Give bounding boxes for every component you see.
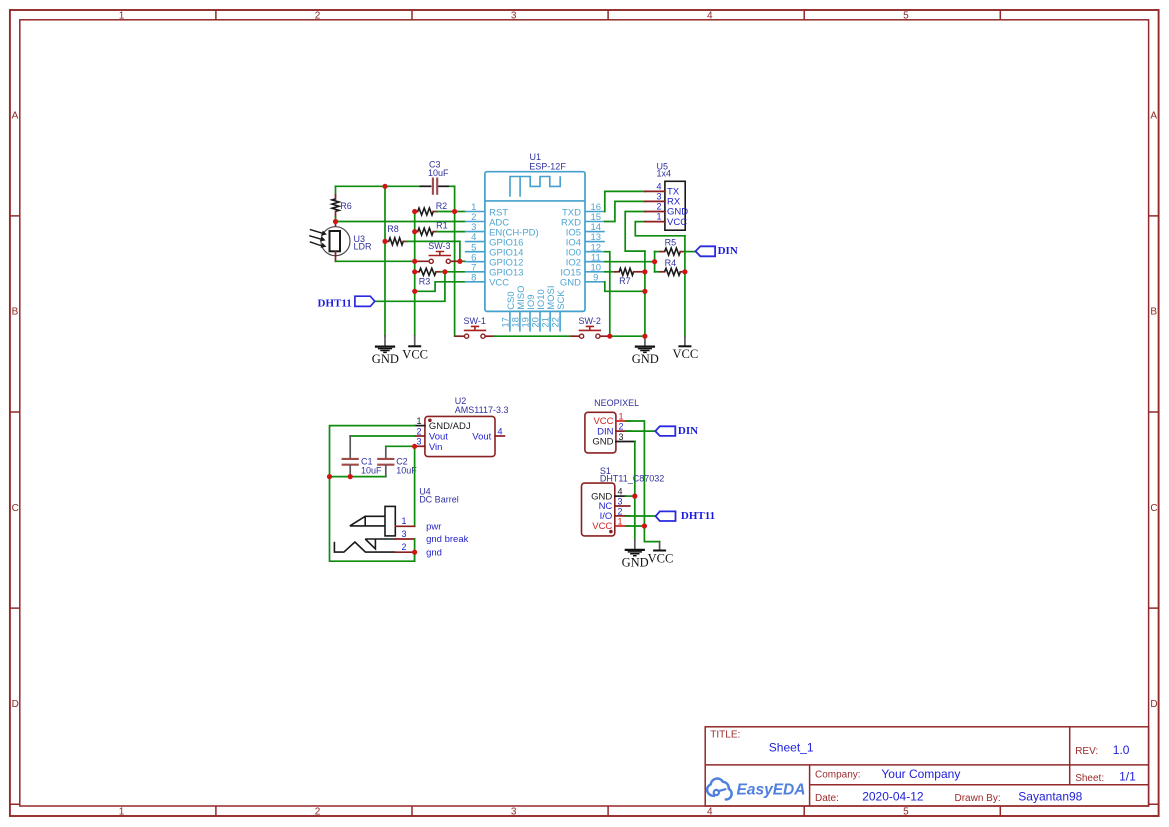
svg-text:1.0: 1.0 bbox=[1113, 743, 1130, 757]
left ruler row letters bbox=[12, 111, 19, 710]
node junction R3 left bbox=[412, 269, 417, 274]
pushbutton SW-2 bbox=[571, 326, 610, 338]
svg-text:3: 3 bbox=[402, 529, 407, 539]
svg-text:4: 4 bbox=[498, 426, 503, 436]
node junction GND jog bbox=[642, 289, 647, 294]
U2 pin 1 GND/ADJ bbox=[415, 416, 471, 432]
svg-text:gnd break: gnd break bbox=[426, 534, 469, 545]
capacitor C3 bbox=[421, 178, 449, 195]
svg-text:2: 2 bbox=[315, 806, 321, 817]
svg-text:Vout: Vout bbox=[472, 432, 491, 443]
left ruler ticks bbox=[10, 216, 20, 804]
S1 pin 2 I/O bbox=[600, 506, 630, 522]
wire VCC rail left x=414.7 bbox=[414, 212, 416, 336]
photoresistor U3 LDR bbox=[309, 222, 350, 262]
U1 pin 7 GPIO13 bbox=[465, 262, 524, 278]
wire U4 gnd-break to gnd bbox=[414, 539, 416, 561]
svg-text:TITLE:: TITLE: bbox=[710, 730, 740, 741]
wire SW-1 to SW-2 bbox=[494, 335, 571, 337]
resistor R3 bbox=[415, 268, 465, 275]
wire GND row C1 C2 bbox=[330, 476, 386, 478]
S1 pin 1 VCC bbox=[592, 516, 629, 532]
svg-text:R4: R4 bbox=[665, 258, 677, 268]
svg-text:GND: GND bbox=[592, 437, 613, 448]
wire NEOPIXEL VCC rail bbox=[626, 421, 660, 542]
svg-text:DIN: DIN bbox=[597, 426, 614, 437]
bottom ruler ticks bbox=[216, 806, 1000, 816]
svg-text:2: 2 bbox=[618, 506, 623, 516]
wire U5 VCC jog bbox=[635, 222, 685, 236]
svg-text:3: 3 bbox=[511, 806, 517, 817]
header U5 1x4 bbox=[645, 181, 685, 230]
wire rail B x=454.6 bbox=[454, 186, 456, 336]
wire S1 I/O to DHT11 port bbox=[626, 515, 656, 517]
wire GND pin9 jog bbox=[605, 282, 645, 292]
S1 pin 3 NC bbox=[599, 496, 630, 512]
svg-text:4: 4 bbox=[656, 181, 661, 191]
resistor R2 bbox=[415, 208, 455, 215]
svg-text:D: D bbox=[1150, 699, 1157, 710]
svg-text:SW-2: SW-2 bbox=[579, 316, 601, 326]
svg-text:GND/ADJ: GND/ADJ bbox=[429, 421, 471, 432]
svg-text:2: 2 bbox=[619, 422, 624, 432]
wire GND rail right x=644.9 bbox=[644, 251, 646, 336]
U1 pin 9 GND bbox=[560, 272, 605, 288]
right ruler row letters bbox=[1150, 111, 1157, 710]
U1 pin 5 GPIO14 bbox=[465, 242, 524, 258]
svg-text:C: C bbox=[1150, 503, 1157, 514]
wire VCC jog to pin8 bbox=[415, 282, 465, 292]
resistor R1 bbox=[415, 228, 465, 235]
svg-text:GND: GND bbox=[372, 352, 399, 366]
wire ADC y=221.5 bbox=[336, 221, 465, 223]
node junction R7 right GND rail bbox=[642, 269, 647, 274]
power symbol VCC left bbox=[402, 336, 428, 362]
wire S1 VCC to rail bbox=[626, 525, 645, 527]
svg-text:R2: R2 bbox=[436, 201, 448, 211]
svg-text:10uF: 10uF bbox=[428, 168, 449, 178]
resistor R8 bbox=[385, 238, 460, 261]
svg-text:DHT11: DHT11 bbox=[681, 510, 715, 522]
svg-text:LDR: LDR bbox=[354, 241, 373, 251]
right ruler ticks bbox=[1149, 216, 1159, 804]
capacitor C1 bbox=[342, 436, 359, 477]
svg-text:2: 2 bbox=[656, 202, 661, 212]
svg-text:4: 4 bbox=[707, 11, 713, 22]
svg-text:U1: U1 bbox=[530, 152, 542, 162]
svg-text:3: 3 bbox=[416, 437, 421, 447]
svg-text:R6: R6 bbox=[340, 201, 352, 211]
wire Vin down to U4 pwr bbox=[414, 446, 416, 526]
IC U1 ESP-12F body bbox=[485, 172, 585, 312]
bottom ruler column numbers bbox=[119, 806, 909, 817]
node junction top rail bbox=[382, 184, 387, 189]
wire IO2 to junction bbox=[605, 261, 655, 263]
svg-text:SW-1: SW-1 bbox=[464, 316, 486, 326]
svg-text:1: 1 bbox=[119, 11, 125, 22]
svg-text:Date:: Date: bbox=[815, 793, 839, 804]
svg-text:Sheet:: Sheet: bbox=[1075, 773, 1104, 784]
svg-text:Company:: Company: bbox=[815, 770, 861, 781]
node junction VCC jog bbox=[412, 289, 417, 294]
U1 pin 13 IO4 bbox=[566, 232, 605, 248]
node junction GND loop C1 bbox=[327, 474, 332, 479]
svg-text:ESP-12F: ESP-12F bbox=[529, 161, 566, 171]
svg-text:1/1: 1/1 bbox=[1119, 770, 1136, 784]
U1 pin 8 VCC bbox=[465, 272, 509, 288]
svg-text:Sayantan98: Sayantan98 bbox=[1018, 790, 1082, 804]
U2 pin1 marker dot bbox=[428, 419, 432, 423]
node junction C1 bottom bbox=[348, 474, 353, 479]
svg-text:DIN: DIN bbox=[718, 245, 738, 257]
svg-text:GND: GND bbox=[632, 352, 659, 366]
svg-text:AMS1117-3.3: AMS1117-3.3 bbox=[455, 405, 509, 415]
svg-text:1: 1 bbox=[618, 516, 623, 526]
node junction SW-2 right bbox=[607, 334, 612, 339]
svg-text:9: 9 bbox=[593, 272, 598, 283]
EasyEDA logo cloud bbox=[707, 779, 732, 800]
wire DHT11 net to GPIO13 bbox=[375, 272, 445, 302]
wire VCC rail right x=684.9 bbox=[684, 236, 686, 337]
wire Vout to C1 bbox=[350, 435, 415, 437]
U2 pin 3 Vin bbox=[415, 437, 443, 453]
svg-text:R7: R7 bbox=[619, 276, 631, 286]
sensor S1 DHT11 body bbox=[582, 483, 615, 536]
svg-text:2: 2 bbox=[402, 542, 407, 552]
resistor R7 bbox=[605, 268, 643, 275]
node junction GND rail bottom bbox=[642, 334, 647, 339]
resistor R6 bbox=[332, 186, 339, 221]
svg-text:B: B bbox=[1150, 307, 1157, 318]
node junction R2 left bbox=[412, 209, 417, 214]
svg-text:GND: GND bbox=[622, 556, 649, 570]
node junction rail B RST bbox=[452, 209, 457, 214]
svg-text:VCC: VCC bbox=[673, 347, 699, 361]
svg-text:B: B bbox=[12, 307, 19, 318]
svg-text:1: 1 bbox=[416, 416, 421, 426]
NEOPIXEL pin 3 GND bbox=[592, 432, 635, 448]
svg-text:VCC: VCC bbox=[648, 552, 674, 566]
U1 pin 15 RXD bbox=[561, 212, 605, 228]
svg-text:NEOPIXEL: NEOPIXEL bbox=[594, 398, 639, 408]
svg-text:8: 8 bbox=[471, 272, 476, 283]
svg-text:EasyEDA: EasyEDA bbox=[737, 782, 806, 799]
U1 pin 12 IO0 bbox=[566, 242, 605, 258]
wire GND rail x=634.8 bbox=[634, 442, 636, 540]
svg-text:R8: R8 bbox=[387, 224, 399, 234]
NEOPIXEL pin 1 VCC bbox=[593, 411, 630, 427]
svg-text:VCC: VCC bbox=[489, 278, 509, 289]
U1 pin 1 RST bbox=[465, 202, 508, 218]
net port DHT11 bottom bbox=[656, 510, 716, 522]
svg-text:R3: R3 bbox=[419, 276, 431, 286]
net port DHT11 left bbox=[318, 296, 375, 309]
svg-text:4: 4 bbox=[618, 487, 623, 497]
title block outline bbox=[705, 727, 1148, 806]
svg-text:3: 3 bbox=[618, 496, 623, 506]
svg-text:REV:: REV: bbox=[1075, 746, 1098, 757]
U1 pin 4 GPIO16 bbox=[465, 232, 524, 248]
connector NEOPIXEL body bbox=[585, 412, 616, 453]
U1 pin 21 MOSI bbox=[541, 286, 557, 332]
svg-text:2020-04-12: 2020-04-12 bbox=[862, 790, 924, 804]
node junction R1 left bbox=[412, 229, 417, 234]
svg-text:5: 5 bbox=[903, 11, 909, 22]
power symbol VCC of S1 bbox=[648, 542, 674, 566]
U1 pin 2 ADC bbox=[465, 212, 509, 228]
U2 pin 4 Vout right bbox=[472, 426, 504, 442]
wire SW-2 to GND rail bbox=[610, 335, 645, 337]
pushbutton SW-3 bbox=[415, 252, 460, 264]
S1 pin 4 GND bbox=[591, 487, 635, 503]
svg-text:DHT11_C87032: DHT11_C87032 bbox=[600, 474, 664, 484]
svg-text:D: D bbox=[12, 699, 19, 710]
S1 pin1 marker dot bbox=[609, 530, 613, 534]
U1 antenna graphic bbox=[510, 176, 560, 196]
wire IO0 to SW-2 bbox=[605, 252, 610, 337]
svg-text:3: 3 bbox=[619, 432, 624, 442]
NEOPIXEL pin 2 DIN bbox=[597, 422, 631, 438]
U1 pin 22 SCK bbox=[551, 290, 567, 332]
top ruler ticks bbox=[216, 10, 1000, 20]
U1 pin 16 TXD bbox=[562, 202, 605, 218]
connector U4 DC Barrel bbox=[334, 506, 414, 552]
svg-text:VCC: VCC bbox=[667, 217, 687, 228]
wire Vin to C2 bbox=[386, 445, 415, 447]
U1 pin 14 IO5 bbox=[566, 222, 605, 238]
node junction SW-3 right GPIO12 bbox=[457, 259, 462, 264]
resistor R5 bbox=[655, 248, 696, 255]
U2 pin 2 Vout bbox=[415, 426, 448, 442]
svg-text:pwr: pwr bbox=[426, 522, 441, 533]
node junction S1 GND bbox=[632, 494, 637, 499]
svg-text:1: 1 bbox=[656, 212, 661, 222]
svg-text:1x4: 1x4 bbox=[657, 169, 672, 179]
ground symbol GND right bbox=[632, 336, 659, 366]
svg-text:4: 4 bbox=[707, 806, 713, 817]
svg-text:R5: R5 bbox=[665, 238, 677, 248]
svg-text:1: 1 bbox=[402, 516, 407, 526]
U1 pin 19 IO9 bbox=[521, 294, 537, 331]
regulator U2 AMS1117-3.3 body bbox=[425, 416, 495, 456]
svg-text:VCC: VCC bbox=[592, 521, 612, 532]
node junction U4 gnd bbox=[412, 550, 417, 555]
svg-text:R1: R1 bbox=[436, 221, 448, 231]
svg-text:gnd: gnd bbox=[426, 548, 442, 559]
U1 pin 18 MISO bbox=[510, 286, 526, 332]
wire R5 R4 vertical link bbox=[654, 252, 656, 272]
ground symbol GND left bbox=[372, 336, 399, 366]
svg-text:Your Company: Your Company bbox=[881, 767, 960, 781]
pushbutton SW-1 bbox=[455, 326, 494, 338]
wire U5 GND down bbox=[625, 212, 645, 252]
U1 pin 20 IO10 bbox=[531, 289, 547, 331]
top ruler column numbers bbox=[119, 11, 909, 22]
U1 pin 17 CS0 bbox=[500, 291, 516, 331]
U1 pin 3 EN(CH-PD) bbox=[465, 222, 539, 238]
svg-text:A: A bbox=[12, 111, 19, 122]
svg-text:22: 22 bbox=[551, 317, 562, 328]
node junction R3 right GPIO13 bbox=[442, 269, 447, 274]
ground symbol GND of S1 bbox=[622, 540, 649, 570]
svg-text:C: C bbox=[12, 503, 19, 514]
net port DIN bottom bbox=[655, 425, 698, 437]
power symbol VCC right bbox=[673, 336, 699, 361]
svg-text:2: 2 bbox=[315, 11, 321, 22]
resistor R4 bbox=[655, 268, 685, 275]
svg-text:5: 5 bbox=[903, 806, 909, 817]
svg-text:VCC: VCC bbox=[402, 348, 428, 362]
node junction Vin bbox=[412, 444, 417, 449]
svg-text:Drawn By:: Drawn By: bbox=[955, 793, 1001, 804]
wire RXD to U5 pin3 bbox=[605, 201, 645, 221]
wire top VCC rail y=186.3 bbox=[336, 185, 455, 187]
svg-text:A: A bbox=[1150, 111, 1157, 122]
svg-text:DIN: DIN bbox=[678, 425, 698, 437]
wire U2 GND loop to U4 gnd bbox=[330, 426, 415, 562]
wire TXD to U5 pin4 bbox=[605, 191, 645, 211]
svg-text:2: 2 bbox=[416, 426, 421, 436]
wire GND rail left x=385 bbox=[384, 186, 386, 336]
U1 pin 11 IO2 bbox=[566, 252, 605, 268]
wire RST pin1 stub bbox=[455, 211, 465, 213]
node junction S1 VCC bbox=[642, 523, 647, 528]
capacitor C2 bbox=[377, 446, 394, 476]
node junction R6 LDR ADC bbox=[333, 219, 338, 224]
U1 pin 10 IO15 bbox=[560, 262, 604, 278]
svg-text:SW-3: SW-3 bbox=[428, 241, 450, 251]
node junction IO2 bbox=[652, 259, 657, 264]
svg-text:GND: GND bbox=[560, 278, 581, 289]
svg-text:1: 1 bbox=[619, 411, 624, 421]
svg-text:Sheet_1: Sheet_1 bbox=[769, 741, 814, 755]
svg-text:Vin: Vin bbox=[429, 442, 443, 453]
svg-text:3: 3 bbox=[511, 11, 517, 22]
wire GPIO12 pin6 stub bbox=[460, 260, 465, 262]
svg-text:SCK: SCK bbox=[556, 290, 567, 310]
svg-text:DC Barrel: DC Barrel bbox=[419, 495, 459, 505]
node junction SW-3 left bbox=[412, 259, 417, 264]
U1 pin 6 GPIO12 bbox=[465, 252, 524, 268]
net port DIN right bbox=[696, 245, 738, 257]
svg-text:10uF: 10uF bbox=[361, 466, 382, 476]
svg-text:3: 3 bbox=[656, 191, 661, 201]
node junction R8 left bbox=[382, 239, 387, 244]
wire LDR bottom to SW-3 y=261.3 bbox=[336, 260, 415, 262]
wire NEOPIXEL DIN to port bbox=[626, 430, 656, 432]
svg-text:DHT11: DHT11 bbox=[318, 297, 352, 309]
node junction R4 right VCC rail bbox=[682, 269, 687, 274]
svg-text:1: 1 bbox=[119, 806, 125, 817]
